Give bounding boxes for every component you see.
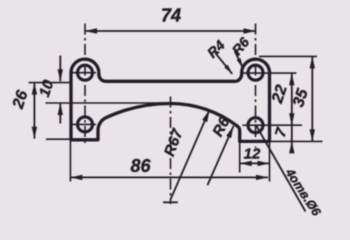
crosshair hole bottom-right / ext for 22-7	[243, 124, 303, 126]
dim 10 line upper arrow	[59, 56, 61, 82]
dim 22 line	[291, 73, 293, 150]
leader R67	[171, 110, 210, 200]
svg-text:74: 74	[161, 6, 181, 26]
crosshair hole top-right / ext for 22	[243, 72, 297, 74]
leader R6 top	[235, 51, 243, 68]
leader R4 top	[215, 53, 232, 74]
dim 26 ext bottom	[46, 138, 72, 140]
leader R6 bottom	[208, 126, 234, 185]
crosshair hole bottom-left	[72, 123, 96, 125]
svg-text:86: 86	[130, 156, 151, 176]
hole top-right	[248, 65, 263, 80]
dim 86 ext left	[69, 141, 71, 182]
dim 12 / 86 ext right	[269, 141, 271, 181]
dim 12 line	[240, 162, 270, 164]
centerline right hole column	[255, 24, 257, 149]
hole bottom-left	[78, 117, 93, 132]
dim 26 line	[33, 83, 35, 139]
dim 74 line	[85, 30, 256, 32]
dim 10 ext (arc apex level)	[46, 102, 171, 104]
hole top-left	[78, 65, 93, 80]
dim 10 line lower arrow	[59, 103, 61, 124]
crosshair hole top-left	[72, 72, 96, 74]
axis center cross tick	[163, 201, 178, 203]
centerline vertical axis	[170, 97, 172, 205]
dim 86 line	[70, 176, 268, 178]
leader 4 holes	[256, 126, 305, 212]
dim 7 lower arrow	[289, 141, 294, 153]
dim 12 ext left	[239, 141, 241, 172]
svg-text:12: 12	[244, 146, 261, 163]
dim 35 / 7 ext bottom (tab bottom level)	[271, 140, 323, 142]
dim 26 ext top	[29, 82, 73, 84]
hole bottom-right	[248, 118, 263, 133]
dim 35 line	[311, 56, 313, 141]
centerline left hole column	[84, 24, 86, 147]
dim 35 ext top (bump top level)	[259, 55, 317, 57]
part outline	[71, 59, 270, 141]
